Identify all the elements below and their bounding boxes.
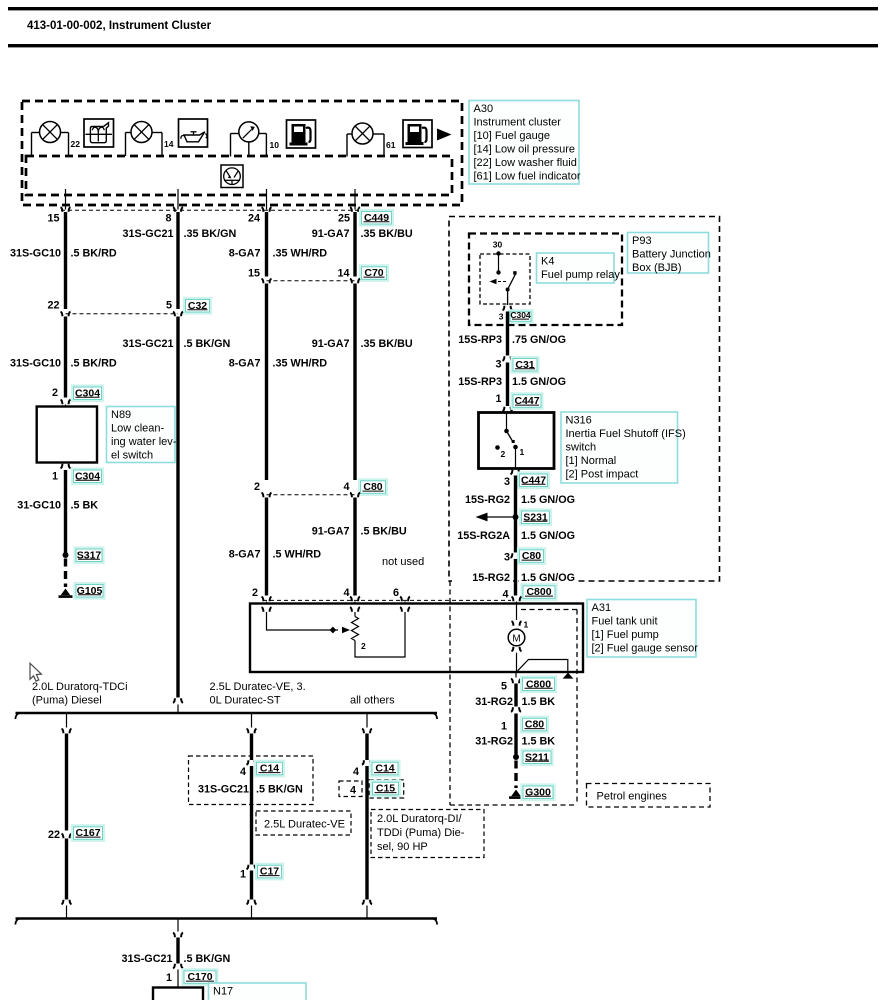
svg-text:[61] Low fuel indicator: [61] Low fuel indicator <box>474 171 581 183</box>
svg-text:22: 22 <box>71 139 81 149</box>
svg-text:24: 24 <box>248 213 260 225</box>
svg-text:M: M <box>512 634 520 645</box>
N316 switch internals <box>506 413 508 431</box>
socket at C800 pump <box>512 597 514 602</box>
svg-text:4: 4 <box>502 589 508 601</box>
fuel tank unit A31 box <box>250 604 583 673</box>
petrol engines region dashed boundary <box>450 581 577 805</box>
wire 8-GA7 lower segment <box>265 498 268 596</box>
socket at C17 <box>247 865 249 870</box>
battery junction box P93 dashed box <box>449 217 720 582</box>
connector C449 <box>359 209 394 227</box>
dashed ground wire to G300 <box>514 761 517 789</box>
svg-text:413-01-00-002, Instrument Clus: 413-01-00-002, Instrument Cluster <box>27 20 212 32</box>
socket at C32 wire 2 <box>173 312 175 317</box>
bus wire B mid segment <box>250 766 253 865</box>
connector C80 dashed line <box>267 494 356 496</box>
bus wire C upper segment <box>365 734 368 761</box>
connector C14 wire C <box>369 760 400 778</box>
svg-text:TDDi (Puma) Die-: TDDi (Puma) Die- <box>377 827 465 839</box>
arrow onto lower bus wire A <box>62 900 64 905</box>
svg-text:1.5 GN/OG: 1.5 GN/OG <box>512 376 566 388</box>
inertia fuel shutoff switch N316 box <box>479 413 555 469</box>
connector C70 dashed line <box>267 280 356 282</box>
bus wire A stub and socket <box>66 713 68 728</box>
svg-text:91-GA7: 91-GA7 <box>312 338 350 350</box>
svg-text:3: 3 <box>504 476 510 488</box>
svg-text:Fuel pump relay: Fuel pump relay <box>541 269 620 281</box>
connector C17 <box>255 863 284 881</box>
svg-text:3: 3 <box>504 552 510 564</box>
svg-text:1: 1 <box>520 447 525 457</box>
petrol engines label dashed box <box>587 784 711 808</box>
socket at relay output C304 <box>503 306 505 311</box>
connector C304 at relay <box>507 309 533 324</box>
fuel pump icon <box>287 120 316 148</box>
fuel pump motor pin 1 <box>516 604 518 621</box>
svg-text:.5 BK/RD: .5 BK/RD <box>71 248 117 260</box>
connector C447 below N316 <box>517 471 550 489</box>
horizontal rule bottom <box>8 44 878 47</box>
svg-text:31S-GC10: 31S-GC10 <box>10 358 61 370</box>
svg-text:2: 2 <box>501 449 506 459</box>
svg-text:Instrument cluster: Instrument cluster <box>474 117 562 129</box>
wire 91-GA7 upper segment <box>353 212 356 277</box>
svg-text:1.5 GN/OG: 1.5 GN/OG <box>521 572 575 584</box>
bus wire C stub and socket <box>366 713 368 728</box>
bus wire B stub and socket <box>251 713 253 728</box>
svg-text:31S-GC21: 31S-GC21 <box>198 784 249 796</box>
svg-text:31S-GC10: 31S-GC10 <box>10 248 61 260</box>
svg-text:.5 BK/GN: .5 BK/GN <box>256 784 303 796</box>
svg-text:(Puma) Diesel: (Puma) Diesel <box>32 695 102 707</box>
svg-text:[14] Low oil pressure: [14] Low oil pressure <box>474 144 576 156</box>
label box A31 fuel tank unit <box>587 600 696 658</box>
svg-text:1: 1 <box>524 620 529 630</box>
fuel pump relay K4 dashed box <box>469 234 622 326</box>
svg-text:25: 25 <box>338 213 350 225</box>
warning lamp indicator 14 (low oil pressure) <box>126 122 174 157</box>
oil pressure icon <box>179 119 208 147</box>
label box A30 instrument cluster <box>469 101 579 185</box>
socket at C14 wire C <box>362 760 364 765</box>
connector C447 <box>510 392 543 410</box>
svg-text:2.5L Duratec-VE, 3.: 2.5L Duratec-VE, 3. <box>210 681 306 693</box>
wire 31S-GC10 upper segment <box>64 212 67 309</box>
svg-text:15S-RG2A: 15S-RG2A <box>457 530 510 542</box>
socket at C70 wire 3 <box>262 279 264 284</box>
svg-text:22: 22 <box>47 300 59 312</box>
svg-text:el switch: el switch <box>111 450 153 462</box>
fuel pump internal ground link <box>518 660 568 671</box>
connector C800 dashed line <box>263 599 511 601</box>
wire 8-GA7 upper segment <box>265 212 268 277</box>
svg-text:6: 6 <box>393 587 399 599</box>
wire 91-GA7 lower segment <box>353 498 356 596</box>
svg-text:31S-GC21: 31S-GC21 <box>121 953 172 965</box>
svg-text:.35 BK/GN: .35 BK/GN <box>184 228 237 240</box>
svg-text:4: 4 <box>343 481 349 493</box>
relay K4 internal dashed outline <box>480 254 530 304</box>
ground label G300 <box>520 783 555 801</box>
svg-text:1: 1 <box>166 972 172 984</box>
splice label S317 <box>73 546 104 564</box>
svg-text:1.5 GN/OG: 1.5 GN/OG <box>521 494 575 506</box>
svg-text:Box (BJB): Box (BJB) <box>632 262 682 274</box>
svg-text:15S-RP3: 15S-RP3 <box>458 376 502 388</box>
connector C304 below N89 <box>71 467 104 485</box>
lower bus wire <box>16 917 438 920</box>
warning lamp indicator 22 (low washer fluid) <box>32 122 81 157</box>
label box N17 <box>209 983 307 1000</box>
fuel gauge sender resistor <box>354 612 356 617</box>
svg-text:31S-GC21: 31S-GC21 <box>122 338 173 350</box>
svg-text:1.5 BK: 1.5 BK <box>522 736 556 748</box>
svg-text:31-RG2: 31-RG2 <box>475 696 513 708</box>
svg-text:Fuel tank unit: Fuel tank unit <box>592 616 658 628</box>
bus wire B upper segment <box>250 734 253 761</box>
svg-text:Inertia Fuel Shutoff (IFS): Inertia Fuel Shutoff (IFS) <box>566 428 686 440</box>
connector C80 ground wire <box>520 716 549 734</box>
svg-text:A30: A30 <box>474 103 494 115</box>
svg-text:.35 WH/RD: .35 WH/RD <box>273 358 328 370</box>
connector C80 <box>358 478 388 496</box>
wire to N17 stub and socket <box>177 919 179 932</box>
svg-text:K4: K4 <box>541 256 554 268</box>
svg-text:3: 3 <box>495 359 501 371</box>
svg-text:N17: N17 <box>213 986 233 998</box>
svg-text:14: 14 <box>337 268 349 280</box>
svg-text:0L Duratec-ST: 0L Duratec-ST <box>210 695 281 707</box>
svg-text:10: 10 <box>270 140 280 150</box>
svg-text:ing water lev-: ing water lev- <box>111 436 177 448</box>
label box P93 battery junction box <box>628 233 709 274</box>
svg-text:15S-RP3: 15S-RP3 <box>458 334 502 346</box>
svg-text:8-GA7: 8-GA7 <box>229 248 261 260</box>
variant dashed box 2.5L Duratec-VE <box>256 811 351 835</box>
wire 91-GA7 mid segment <box>353 284 356 481</box>
label box N316 inertia fuel shutoff switch <box>561 412 678 483</box>
wire 31S-GC21 long segment <box>176 317 179 698</box>
svg-text:3: 3 <box>499 312 504 322</box>
wire 31-RG2 segment 1 <box>514 684 517 707</box>
internal sockets A31 pins 2 4 6 <box>262 607 411 612</box>
relay fixed contact <box>496 251 500 255</box>
wire 15S-RP3 segment 2 <box>506 363 509 407</box>
svg-text:15: 15 <box>47 213 59 225</box>
svg-text:8-GA7: 8-GA7 <box>229 358 261 370</box>
warning lamp indicator 61 (low fuel) <box>347 123 396 157</box>
splice S211 <box>513 754 519 760</box>
svg-text:1: 1 <box>52 471 58 483</box>
svg-text:15: 15 <box>248 268 260 280</box>
socket below A31 at C800 <box>515 672 517 678</box>
svg-text:4: 4 <box>240 766 246 778</box>
svg-text:[10] Fuel gauge: [10] Fuel gauge <box>474 130 550 142</box>
bus wire B lower segment <box>250 871 253 900</box>
wire into N17 <box>177 970 179 988</box>
splice label S211 <box>520 748 553 766</box>
svg-text:A31: A31 <box>592 602 612 614</box>
fuel gauge indicator 10 <box>231 122 280 157</box>
splice S231 with off-page arrow <box>487 516 513 518</box>
wire 15-RG2 segment <box>514 559 517 596</box>
svg-text:2.0L Duratorq-TDCi: 2.0L Duratorq-TDCi <box>32 681 128 693</box>
svg-text:switch: switch <box>566 442 597 454</box>
dashed box around C14 variant <box>189 756 314 805</box>
svg-text:1: 1 <box>240 869 246 881</box>
bus wire A lower segment <box>65 839 68 900</box>
svg-text:[1] Normal: [1] Normal <box>566 455 617 467</box>
washer fluid icon <box>84 119 114 147</box>
svg-text:.5 WH/RD: .5 WH/RD <box>273 549 322 561</box>
svg-text:[22] Low washer fluid: [22] Low washer fluid <box>474 157 577 169</box>
svg-text:4: 4 <box>350 785 356 797</box>
connector C800 pump <box>520 583 557 601</box>
svg-text:.35 WH/RD: .35 WH/RD <box>273 248 328 260</box>
svg-text:14: 14 <box>164 139 174 149</box>
internal ground symbol <box>563 673 574 679</box>
svg-text:N316: N316 <box>566 415 592 427</box>
svg-text:22: 22 <box>48 829 60 841</box>
label box N89 low washer level switch <box>107 407 176 463</box>
svg-text:5: 5 <box>501 681 507 693</box>
socket above N89 <box>61 400 63 405</box>
socket at C31 <box>503 356 505 361</box>
svg-text:N89: N89 <box>111 409 131 421</box>
connector C80 right column <box>517 547 546 565</box>
svg-text:2: 2 <box>254 481 260 493</box>
svg-text:31-RG2: 31-RG2 <box>475 736 513 748</box>
connector C31 <box>510 356 539 374</box>
svg-text:15S-RG2: 15S-RG2 <box>465 494 510 506</box>
fuel gauge sender wiper wire <box>267 612 339 630</box>
svg-text:2.0L Duratorq-DI/: 2.0L Duratorq-DI/ <box>377 813 463 825</box>
svg-text:1: 1 <box>495 393 501 405</box>
instrument cluster internal dashed box <box>26 156 452 195</box>
connector C32 dashed line <box>66 313 179 315</box>
wire 31S-GC10 second segment <box>64 317 67 398</box>
socket at C14 wire B <box>247 760 249 765</box>
socket at C80 ground wire <box>511 707 513 712</box>
svg-text:91-GA7: 91-GA7 <box>312 526 350 538</box>
svg-text:not used: not used <box>382 556 424 568</box>
wire 31-RG2 segment 2 <box>514 714 517 755</box>
connector C70 <box>359 264 389 282</box>
socket at C800 wire 3 <box>262 597 264 602</box>
svg-text:Low clean-: Low clean- <box>111 423 165 435</box>
socket below N316 at C447 <box>511 470 513 475</box>
connector C32 <box>183 297 212 315</box>
splice S317 <box>63 552 69 558</box>
socket at C80 wire 3 <box>262 493 264 498</box>
wire 15S-RP3 segment 1 <box>506 312 509 356</box>
svg-text:Battery Junction: Battery Junction <box>632 249 711 261</box>
cluster connector dashed line <box>61 209 358 211</box>
fuel pump motor M <box>508 629 525 646</box>
svg-text:sel, 90 HP: sel, 90 HP <box>377 841 428 853</box>
dashed ground wire to G105 <box>64 559 67 588</box>
socket at C80 wire 4 <box>350 493 352 498</box>
svg-text:.5 BK/GN: .5 BK/GN <box>184 953 231 965</box>
svg-text:31S-GC21: 31S-GC21 <box>122 228 173 240</box>
label box K4 fuel pump relay <box>537 253 615 283</box>
svg-text:2: 2 <box>52 387 58 399</box>
socket at C70 wire 4 <box>350 279 352 284</box>
svg-text:1.5 BK: 1.5 BK <box>522 696 556 708</box>
wire 8-GA7 mid segment <box>265 284 268 481</box>
wire 31S-GC21 to N17 <box>176 938 179 964</box>
socket at C80 right column <box>511 553 513 558</box>
variant dashed box 2.0L Duratorq-DI TDDi <box>371 810 484 858</box>
arrow onto lower bus wire B <box>247 900 249 905</box>
svg-text:8-GA7: 8-GA7 <box>229 549 261 561</box>
ground G300 <box>511 790 521 797</box>
svg-text:[1] Fuel pump: [1] Fuel pump <box>592 629 659 641</box>
wire 31-GC10 ground segment <box>64 470 67 553</box>
svg-text:4: 4 <box>343 587 349 599</box>
svg-text:30: 30 <box>493 240 503 250</box>
switch N89 box <box>37 407 97 463</box>
svg-text:.5 BK/RD: .5 BK/RD <box>71 358 117 370</box>
steering wheel icon <box>221 165 243 188</box>
instrument cluster A30 outer dashed box <box>22 101 462 205</box>
socket at C447 <box>503 407 505 412</box>
connector C800 below A31 <box>520 675 557 693</box>
connector sockets at cluster pins <box>61 207 361 212</box>
svg-text:2: 2 <box>252 587 258 599</box>
arrow onto lower bus wire C <box>362 900 364 905</box>
svg-text:.5 BK/BU: .5 BK/BU <box>361 526 407 538</box>
svg-text:2: 2 <box>361 641 366 651</box>
svg-text:91-GA7: 91-GA7 <box>312 228 350 240</box>
cluster pin stub wires <box>66 189 356 210</box>
connector C170 <box>181 968 218 986</box>
connector C15 with dashed box <box>369 780 404 798</box>
svg-text:4: 4 <box>353 766 359 778</box>
socket below N89 <box>65 463 67 464</box>
switch N17 box <box>153 988 203 1000</box>
socket at C167 <box>62 834 64 839</box>
connector C304 <box>71 384 104 402</box>
connector C14 wire B <box>254 760 285 778</box>
wire 31S-GC21 upper segment <box>176 212 179 309</box>
svg-text:1.5 GN/OG: 1.5 GN/OG <box>521 530 575 542</box>
bus wire C lower segment <box>365 766 368 900</box>
svg-text:1: 1 <box>501 721 507 733</box>
wire label 15-RG2 1.5 GN/OG <box>452 572 513 584</box>
svg-text:31-GC10: 31-GC10 <box>17 500 61 512</box>
svg-text:[2] Fuel gauge sensor: [2] Fuel gauge sensor <box>592 643 699 655</box>
arrow onto diesel bus <box>173 698 175 703</box>
svg-text:P93: P93 <box>632 235 652 247</box>
mouse cursor <box>30 663 41 681</box>
bus wire A upper segment <box>65 734 68 831</box>
socket at C32 wire 1 <box>61 312 63 317</box>
svg-text:all others: all others <box>350 695 395 707</box>
fuel pump icon with arrow (fuel indicator) <box>403 120 452 148</box>
relay switch blade <box>508 274 516 290</box>
svg-text:.35 BK/BU: .35 BK/BU <box>361 338 413 350</box>
svg-text:2.5L Duratec-VE: 2.5L Duratec-VE <box>264 819 345 831</box>
ground label G105 <box>73 582 105 600</box>
svg-text:61: 61 <box>386 140 396 150</box>
socket at C170 <box>173 964 175 969</box>
svg-text:[2] Post impact: [2] Post impact <box>566 469 639 481</box>
svg-text:.75 GN/OG: .75 GN/OG <box>512 334 566 346</box>
svg-text:5: 5 <box>166 300 172 312</box>
svg-text:15-RG2: 15-RG2 <box>472 572 510 584</box>
socket at C800 pin 6 <box>400 597 402 602</box>
socket at C800 wire 4 <box>350 597 352 602</box>
connector C167 <box>71 824 105 842</box>
svg-text:Petrol engines: Petrol engines <box>597 791 668 803</box>
relay actuation dashed arrow <box>496 281 506 283</box>
ground G105 <box>61 589 71 596</box>
upper bus wire <box>16 712 438 715</box>
svg-text:.5 BK/GN: .5 BK/GN <box>184 338 231 350</box>
svg-text:.35 BK/BU: .35 BK/BU <box>361 228 413 240</box>
svg-text:8: 8 <box>165 213 171 225</box>
horizontal rule top <box>8 7 878 10</box>
wire 15S-RG2 segment <box>514 476 517 553</box>
svg-text:.5 BK: .5 BK <box>71 500 99 512</box>
dashed box around alternate pin 4 <box>339 781 362 797</box>
splice label S231 <box>519 508 552 526</box>
